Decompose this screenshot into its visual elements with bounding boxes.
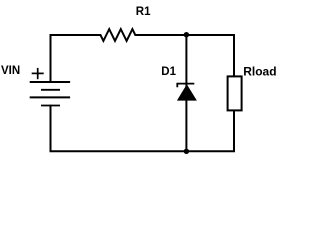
svg-text:R1: R1 xyxy=(136,6,151,18)
svg-text:D1: D1 xyxy=(161,66,176,78)
svg-text:Rload: Rload xyxy=(243,65,276,79)
svg-text:VIN: VIN xyxy=(1,65,20,77)
